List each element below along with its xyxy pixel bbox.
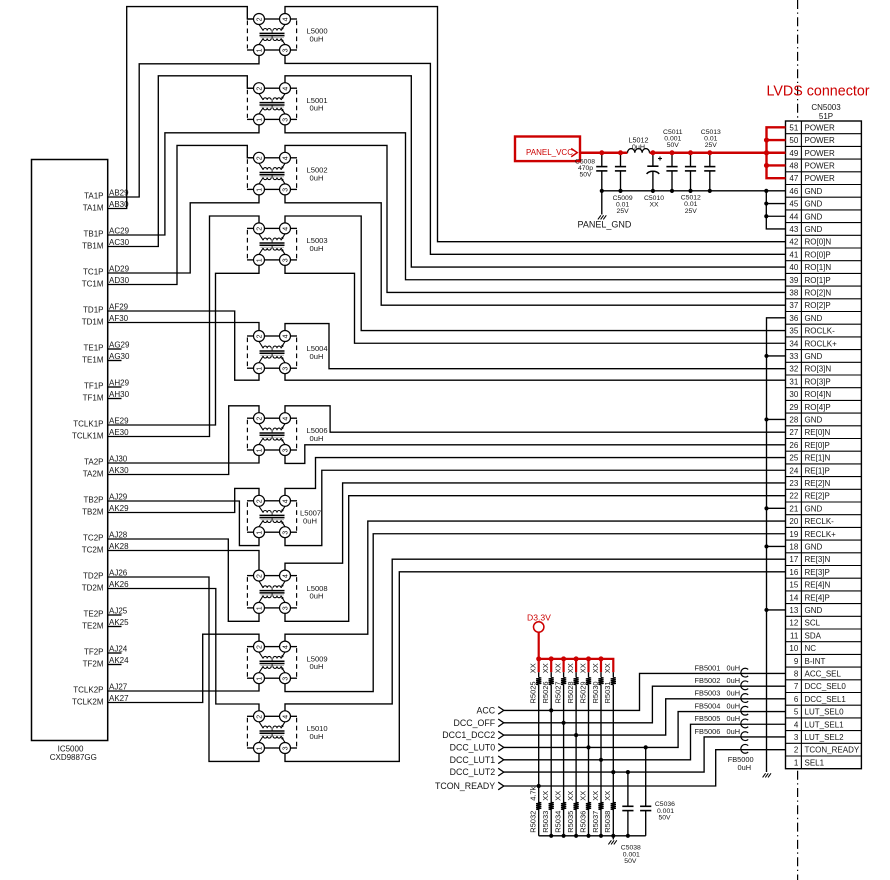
svg-text:9: 9 — [794, 657, 799, 666]
svg-text:3: 3 — [282, 606, 289, 610]
svg-text:46: 46 — [789, 187, 798, 196]
svg-text:RO[0]N: RO[0]N — [805, 238, 832, 247]
svg-text:3: 3 — [282, 48, 289, 52]
svg-text:SCL: SCL — [805, 619, 821, 628]
wire GND bus pins 46-43 — [766, 191, 785, 229]
svg-text:21: 21 — [789, 504, 798, 513]
svg-text:0uH: 0uH — [310, 662, 324, 671]
svg-text:GND: GND — [805, 212, 823, 221]
svg-text:2: 2 — [256, 645, 263, 649]
svg-text:R5036: R5036 — [578, 811, 587, 833]
svg-text:3: 3 — [282, 258, 289, 262]
svg-text:TA1P: TA1P — [84, 191, 103, 200]
wire bottom GND bus — [539, 835, 646, 837]
svg-text:RO[0]P: RO[0]P — [805, 250, 831, 259]
svg-text:2: 2 — [256, 417, 263, 421]
svg-text:0uH: 0uH — [727, 663, 741, 672]
svg-text:50V: 50V — [667, 142, 680, 149]
junction dot ACC tap — [549, 708, 553, 712]
svg-text:29: 29 — [789, 403, 798, 412]
wire TB2P to L5007 pin1 — [108, 501, 259, 546]
svg-text:TA1M: TA1M — [83, 204, 104, 213]
svg-text:POWER: POWER — [805, 174, 835, 183]
svg-text:0uH: 0uH — [727, 689, 741, 698]
resistor R5031 (pull-up) — [611, 672, 616, 836]
svg-text:TCLK2P: TCLK2P — [73, 685, 103, 694]
junction dots GND bus — [764, 201, 768, 205]
svg-text:4: 4 — [282, 715, 289, 719]
svg-text:1: 1 — [256, 118, 263, 122]
svg-text:LUT_SEL2: LUT_SEL2 — [805, 733, 845, 742]
svg-text:2: 2 — [256, 715, 263, 719]
svg-text:1: 1 — [256, 48, 263, 52]
svg-text:RE[2]N: RE[2]N — [805, 479, 831, 488]
svg-text:SEL1: SEL1 — [805, 758, 825, 767]
svg-text:LVDS connector: LVDS connector — [767, 84, 870, 100]
svg-text:35: 35 — [789, 327, 798, 336]
wire L5010 pin4 to CN5003 pin17 RE[3]N — [285, 559, 786, 711]
svg-text:4: 4 — [282, 227, 289, 231]
ferrite bead FB5004 — [741, 706, 748, 715]
svg-text:DCC_LUT0: DCC_LUT0 — [450, 743, 496, 753]
svg-text:XX: XX — [578, 791, 587, 801]
wire TA2P to L5006 pin1 — [108, 456, 259, 464]
svg-text:TF2M: TF2M — [83, 660, 104, 669]
wire PANEL_VCC rail — [580, 152, 628, 154]
svg-text:XX: XX — [541, 663, 550, 673]
svg-text:AH29: AH29 — [109, 379, 130, 388]
wire L5004 pin3 to CN5003 pin31 RO[3]P — [285, 374, 786, 381]
wire TD2M to L5010 pin2 — [108, 589, 259, 711]
svg-text:AJ28: AJ28 — [109, 531, 128, 540]
svg-text:25V: 25V — [617, 208, 630, 215]
svg-text:RE[4]N: RE[4]N — [805, 581, 831, 590]
svg-text:50V: 50V — [659, 815, 672, 822]
wire TC2P to L5008 pin1 — [108, 539, 259, 621]
svg-text:GND: GND — [805, 225, 823, 234]
resistor R5036 (pull-down) — [586, 802, 591, 809]
svg-text:TB2M: TB2M — [82, 508, 104, 517]
wire L5002 pin4 to CN5003 pin38 RO[2]N — [285, 145, 786, 292]
svg-text:45: 45 — [789, 200, 798, 209]
svg-text:D3.3V: D3.3V — [527, 613, 551, 623]
svg-text:AK25: AK25 — [109, 618, 129, 627]
svg-text:POWER: POWER — [805, 149, 835, 158]
pin stub TF1M — [108, 398, 122, 400]
svg-text:FB5002: FB5002 — [695, 676, 721, 685]
svg-text:31: 31 — [789, 377, 798, 386]
svg-text:AK30: AK30 — [109, 466, 129, 475]
junction dot DCC1_DCC2 tap — [574, 733, 578, 737]
svg-text:XX: XX — [553, 663, 562, 673]
svg-text:AJ24: AJ24 — [109, 645, 128, 654]
svg-text:XX: XX — [553, 791, 562, 801]
svg-text:FB5001: FB5001 — [695, 663, 721, 672]
svg-text:16: 16 — [789, 568, 798, 577]
resistor R5035 (pull-down) — [574, 802, 579, 809]
ferrite bead FB5006 — [741, 732, 748, 741]
svg-text:R5026: R5026 — [541, 681, 550, 703]
svg-text:LUT_SEL1: LUT_SEL1 — [805, 720, 845, 729]
sheet border dash-dot right edge top segment — [797, 0, 799, 120]
pin stub TE1M — [108, 360, 122, 362]
svg-text:TF1P: TF1P — [84, 381, 104, 390]
svg-text:TCLK2M: TCLK2M — [72, 698, 104, 707]
svg-text:GND: GND — [805, 415, 823, 424]
svg-text:AF29: AF29 — [109, 303, 129, 312]
svg-text:ACC: ACC — [477, 706, 496, 716]
svg-text:RE[3]P: RE[3]P — [805, 568, 830, 577]
wire TC1M to L5002 pin2 — [108, 145, 254, 284]
svg-text:AK26: AK26 — [109, 580, 129, 589]
wire L5003 pin4 to CN5003 pin35 ROCLK- — [285, 216, 786, 331]
chassis ground at GND bus bottom — [763, 773, 766, 777]
common-mode choke L5006 — [247, 413, 297, 456]
svg-text:2: 2 — [256, 227, 263, 231]
wire L5006 pin4 to CN5003 pin27 RE[0]N — [285, 406, 786, 432]
resistor R5030 (pull-up) — [598, 672, 603, 836]
wire DCC_LUT1 to FB — [504, 724, 786, 760]
svg-text:XX: XX — [566, 663, 575, 673]
svg-text:RECLK+: RECLK+ — [805, 530, 837, 539]
wire D3.3V bus — [539, 659, 614, 672]
svg-text:POWER: POWER — [805, 123, 835, 132]
svg-text:AK24: AK24 — [109, 656, 129, 665]
pin stub TE1P — [108, 348, 122, 350]
svg-text:DCC_LUT2: DCC_LUT2 — [450, 767, 496, 777]
junction dot DCC_LUT0 tap — [586, 745, 590, 749]
svg-text:47: 47 — [789, 174, 798, 183]
svg-text:25V: 25V — [705, 142, 718, 149]
svg-text:17: 17 — [789, 555, 798, 564]
svg-text:AH30: AH30 — [109, 390, 130, 399]
svg-text:AC29: AC29 — [109, 227, 130, 236]
svg-text:GND: GND — [805, 504, 823, 513]
svg-text:PANEL_GND: PANEL_GND — [578, 220, 632, 230]
svg-text:AJ26: AJ26 — [109, 569, 128, 578]
svg-text:RO[3]P: RO[3]P — [805, 377, 831, 386]
svg-text:6: 6 — [794, 695, 799, 704]
resistor R5034 (pull-down) — [561, 802, 566, 809]
inductor L5012 — [628, 149, 650, 153]
svg-text:RO[2]P: RO[2]P — [805, 301, 831, 310]
junction dot TCON_READY tap — [537, 784, 541, 788]
svg-text:TB1M: TB1M — [82, 242, 104, 251]
pin stub TE2M — [108, 626, 122, 628]
svg-text:AJ27: AJ27 — [109, 683, 128, 692]
svg-text:3: 3 — [282, 367, 289, 371]
svg-text:1: 1 — [256, 531, 263, 535]
svg-text:AE29: AE29 — [109, 417, 129, 426]
svg-text:3: 3 — [282, 118, 289, 122]
wire GND bus pins 36,33,28,21,18,13 — [767, 318, 786, 772]
svg-text:4: 4 — [282, 574, 289, 578]
svg-text:0uH: 0uH — [310, 352, 324, 361]
svg-text:R5038: R5038 — [603, 811, 612, 833]
svg-text:TE1P: TE1P — [83, 343, 103, 352]
wire PANEL_GND drop — [601, 191, 603, 215]
svg-text:XX: XX — [541, 791, 550, 801]
wire L5000 pin4 to CN5003 pin42 RO[0]N — [285, 7, 786, 242]
svg-text:TD2P: TD2P — [83, 571, 103, 580]
resistor R5037 (pull-down) — [598, 802, 603, 809]
svg-text:2: 2 — [256, 17, 263, 21]
svg-text:ACC_SEL: ACC_SEL — [805, 669, 842, 678]
svg-text:XX: XX — [591, 663, 600, 673]
svg-text:TB1P: TB1P — [83, 229, 103, 238]
svg-text:TC1P: TC1P — [83, 267, 103, 276]
svg-text:33: 33 — [789, 352, 798, 361]
svg-text:GND: GND — [805, 542, 823, 551]
wire L5001 pin3 to CN5003 pin39 RO[1]P — [285, 125, 786, 280]
svg-text:39: 39 — [789, 276, 798, 285]
svg-text:AK27: AK27 — [109, 694, 129, 703]
svg-text:AJ30: AJ30 — [109, 455, 128, 464]
svg-text:R5028: R5028 — [566, 681, 575, 703]
capacitor C5012 — [685, 153, 696, 191]
svg-text:TF2P: TF2P — [84, 647, 104, 656]
ferrite bead FB5000 — [741, 744, 748, 753]
junction dot DCC_OFF tap — [562, 721, 566, 725]
svg-text:TE1M: TE1M — [82, 356, 104, 365]
svg-text:DCC_OFF: DCC_OFF — [454, 718, 496, 728]
junction dots D3.3V bus — [536, 656, 541, 661]
capacitor C5013 — [704, 153, 715, 191]
resistor R5025 (pull-up) — [536, 672, 541, 836]
svg-text:1: 1 — [256, 448, 263, 452]
chassis ground PANEL_GND symbol — [598, 215, 601, 219]
svg-text:FB5006: FB5006 — [695, 727, 721, 736]
svg-text:4: 4 — [794, 720, 799, 729]
common-mode choke L5001 — [247, 83, 297, 125]
svg-text:51P: 51P — [819, 112, 833, 121]
svg-text:2: 2 — [256, 574, 263, 578]
wire PANEL_VCC bus to POWER pins — [767, 127, 786, 178]
wire TCLK1M to L5003 pin2 — [108, 216, 259, 437]
svg-text:19: 19 — [789, 530, 798, 539]
svg-text:GND: GND — [805, 187, 823, 196]
wire L5007 pin3 to CN5003 pin24 RE[1]P — [285, 470, 786, 545]
svg-text:LUT_SEL0: LUT_SEL0 — [805, 708, 845, 717]
wire TB1P to L5001 pin1 — [108, 125, 259, 235]
ferrite bead FB5005 — [741, 719, 748, 728]
svg-text:0uH: 0uH — [310, 244, 324, 253]
svg-text:4: 4 — [282, 417, 289, 421]
pin stub TF1P — [108, 386, 122, 388]
svg-text:R5033: R5033 — [541, 811, 550, 833]
svg-text:1: 1 — [256, 606, 263, 610]
svg-text:TE2M: TE2M — [82, 622, 104, 631]
svg-text:4: 4 — [282, 645, 289, 649]
svg-text:12: 12 — [789, 619, 798, 628]
svg-text:GND: GND — [805, 352, 823, 361]
svg-text:4.7k: 4.7k — [529, 786, 538, 800]
svg-text:AD29: AD29 — [109, 265, 130, 274]
wire DCC_OFF to FB — [504, 686, 786, 723]
junction dot DCC_LUT2 / C5038 — [626, 770, 630, 774]
svg-text:50V: 50V — [579, 172, 592, 179]
svg-text:3: 3 — [282, 531, 289, 535]
capacitor C5010 polarized — [647, 153, 662, 191]
svg-text:XX: XX — [529, 663, 538, 673]
svg-text:3: 3 — [282, 677, 289, 681]
svg-text:13: 13 — [789, 606, 798, 615]
wire TA1P to L5000 pin1 — [108, 56, 259, 198]
svg-text:49: 49 — [789, 149, 798, 158]
svg-text:1: 1 — [256, 746, 263, 750]
svg-text:4: 4 — [282, 334, 289, 338]
svg-text:2: 2 — [256, 499, 263, 503]
svg-text:RE[1]P: RE[1]P — [805, 466, 830, 475]
svg-text:RO[1]N: RO[1]N — [805, 263, 832, 272]
svg-text:GND: GND — [805, 200, 823, 209]
resistor R5033 (pull-down) — [549, 802, 554, 809]
svg-text:R5031: R5031 — [603, 681, 612, 703]
junction dot DCC_LUT2 tap — [611, 770, 615, 774]
wire TD1M to L5004 pin2 — [108, 323, 259, 331]
svg-text:4: 4 — [282, 156, 289, 160]
svg-text:R5029: R5029 — [578, 681, 587, 703]
svg-text:PANEL_VCC: PANEL_VCC — [526, 148, 573, 157]
svg-text:0uH: 0uH — [310, 592, 324, 601]
svg-text:0uH: 0uH — [632, 143, 645, 152]
svg-text:TA2M: TA2M — [83, 470, 104, 479]
svg-text:2: 2 — [256, 334, 263, 338]
svg-text:2: 2 — [794, 746, 799, 755]
wire TCLK2P to L5009 pin1 — [108, 684, 259, 691]
svg-text:RECLK-: RECLK- — [805, 517, 835, 526]
svg-text:TC2M: TC2M — [82, 546, 104, 555]
svg-text:R5032: R5032 — [529, 811, 538, 833]
svg-text:0uH: 0uH — [310, 34, 324, 43]
svg-text:4: 4 — [282, 87, 289, 91]
svg-text:B-INT: B-INT — [805, 657, 826, 666]
svg-text:0uH: 0uH — [727, 701, 741, 710]
svg-text:RO[3]N: RO[3]N — [805, 365, 832, 374]
junction dot DCC_LUT1 tap — [599, 758, 603, 762]
svg-text:50V: 50V — [624, 858, 637, 865]
svg-text:RE[4]P: RE[4]P — [805, 593, 830, 602]
svg-text:37: 37 — [789, 301, 798, 310]
junction dots on PANEL_GND rail — [600, 189, 604, 193]
svg-text:1: 1 — [794, 758, 799, 767]
svg-text:0uH: 0uH — [727, 727, 741, 736]
IC U IC5000 CXD9887GG box — [32, 160, 108, 741]
svg-text:DCC_SEL1: DCC_SEL1 — [805, 695, 847, 704]
svg-text:DCC_LUT1: DCC_LUT1 — [450, 755, 496, 765]
junction dots bottom bus — [549, 834, 553, 838]
svg-text:TC2P: TC2P — [83, 533, 103, 542]
capacitor C5009 — [615, 153, 626, 191]
svg-text:TF1M: TF1M — [83, 394, 104, 403]
svg-text:AJ29: AJ29 — [109, 493, 128, 502]
svg-text:RE[0]P: RE[0]P — [805, 441, 830, 450]
svg-text:TCLK1M: TCLK1M — [72, 432, 104, 441]
resistor R5027 (pull-up) — [561, 672, 566, 836]
svg-text:R5037: R5037 — [591, 811, 600, 833]
wire TB1M to L5001 pin2 — [108, 76, 254, 247]
svg-text:26: 26 — [789, 441, 798, 450]
svg-text:11: 11 — [790, 631, 799, 640]
wire L5008 pin4 to CN5003 pin23 RE[2]N — [285, 483, 786, 570]
svg-text:RO[4]P: RO[4]P — [805, 403, 831, 412]
svg-text:POWER: POWER — [805, 136, 835, 145]
svg-text:FB5005: FB5005 — [695, 714, 721, 723]
port PANEL_VCC — [515, 137, 580, 162]
wire L5007 pin4 to CN5003 pin25 RE[1]N — [285, 458, 786, 496]
connector CN5003 body — [786, 121, 862, 769]
svg-text:0uH: 0uH — [738, 763, 752, 772]
common-mode choke L5010 — [247, 711, 297, 754]
svg-text:18: 18 — [789, 542, 798, 551]
svg-text:XX: XX — [649, 202, 659, 209]
svg-text:NC: NC — [805, 644, 817, 653]
svg-text:FB5004: FB5004 — [695, 701, 721, 710]
svg-text:24: 24 — [789, 466, 798, 475]
svg-text:0uH: 0uH — [310, 104, 324, 113]
svg-text:AJ25: AJ25 — [109, 607, 128, 616]
ferrite bead FB5002 — [741, 681, 748, 690]
svg-text:R5034: R5034 — [553, 811, 562, 833]
svg-text:R5035: R5035 — [566, 811, 575, 833]
wire L5006 pin3 to CN5003 pin26 RE[0]P — [285, 445, 786, 464]
svg-text:8: 8 — [794, 669, 799, 678]
resistor R5038 (pull-down) — [611, 802, 616, 809]
svg-text:AG30: AG30 — [109, 352, 130, 361]
svg-text:48: 48 — [789, 161, 798, 170]
svg-text:CXD9887GG: CXD9887GG — [50, 753, 97, 762]
svg-text:1: 1 — [256, 367, 263, 371]
resistor R5032 (pull-down) — [536, 802, 541, 809]
wire TD1P to L5004 pin1 — [108, 311, 259, 380]
svg-text:XX: XX — [603, 791, 612, 801]
ferrite bead FB5003 — [741, 694, 748, 703]
svg-text:POWER: POWER — [805, 161, 835, 170]
capacitor C5011 — [666, 153, 677, 191]
common-mode choke L5003 — [247, 223, 297, 266]
svg-text:DCC_SEL0: DCC_SEL0 — [805, 682, 847, 691]
svg-text:FB5003: FB5003 — [695, 689, 721, 698]
svg-text:AK28: AK28 — [109, 542, 129, 551]
svg-text:GND: GND — [805, 606, 823, 615]
power port D3.3V — [527, 613, 551, 659]
svg-text:7: 7 — [794, 682, 799, 691]
svg-text:XX: XX — [566, 791, 575, 801]
svg-text:3: 3 — [282, 188, 289, 192]
wire TC1P to L5002 pin1 — [108, 195, 259, 273]
wire TA1M to L5000 pin2 — [108, 7, 254, 209]
svg-text:ROCLK+: ROCLK+ — [805, 339, 838, 348]
common-mode choke L5004 — [247, 331, 297, 374]
pin stub TE2P — [108, 614, 122, 616]
svg-text:RE[1]N: RE[1]N — [805, 454, 831, 463]
svg-text:32: 32 — [789, 365, 798, 374]
svg-text:0uH: 0uH — [310, 173, 324, 182]
svg-text:AC30: AC30 — [109, 238, 130, 247]
wire DCC1_DCC2 to FB — [504, 699, 786, 735]
svg-text:41: 41 — [789, 250, 798, 259]
svg-text:XX: XX — [578, 663, 587, 673]
svg-text:0uH: 0uH — [727, 676, 741, 685]
svg-text:RO[1]P: RO[1]P — [805, 276, 831, 285]
svg-text:27: 27 — [789, 428, 798, 437]
svg-text:0uH: 0uH — [310, 732, 324, 741]
sheet border dash-dot right edge bottom segment — [797, 771, 799, 880]
svg-text:34: 34 — [789, 339, 798, 348]
svg-text:0uH: 0uH — [727, 714, 741, 723]
svg-text:RE[3]N: RE[3]N — [805, 555, 831, 564]
svg-text:5: 5 — [794, 708, 799, 717]
